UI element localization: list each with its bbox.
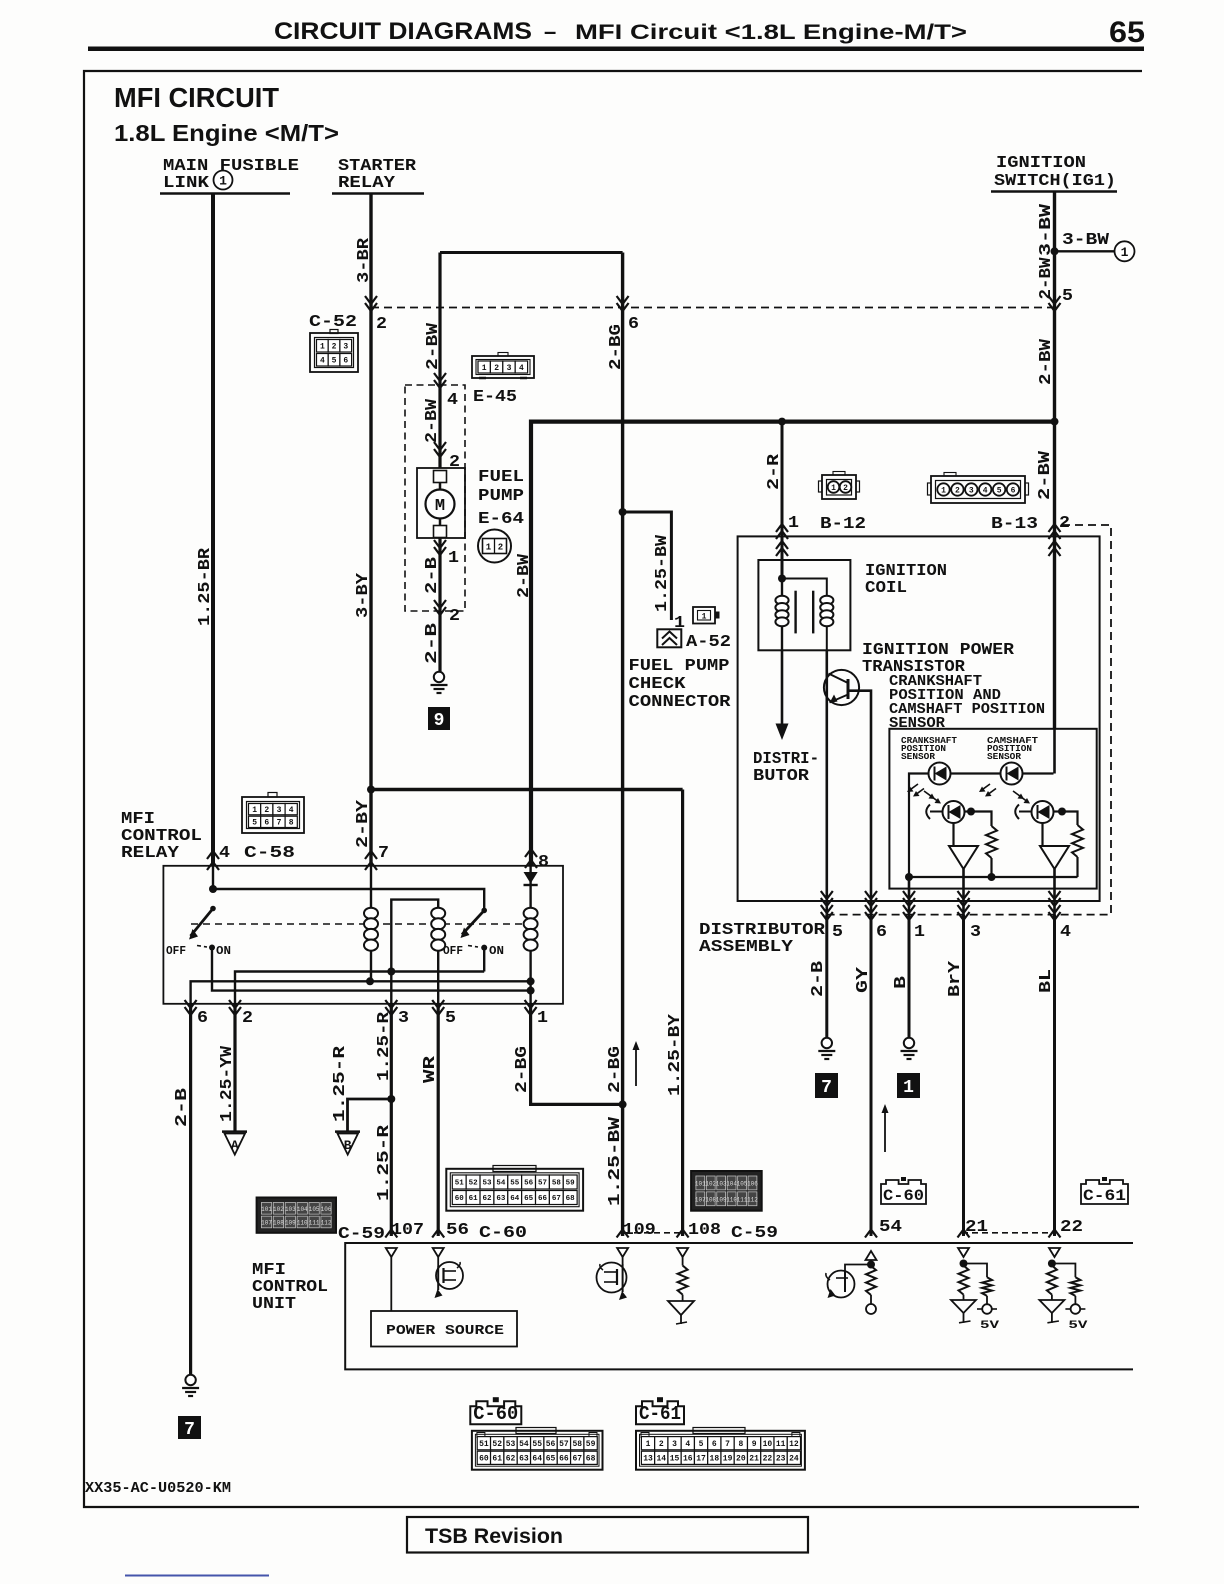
- svg-text:14: 14: [656, 1455, 666, 1464]
- svg-text:1.25-YW: 1.25-YW: [218, 1045, 237, 1122]
- svg-text:C-60: C-60: [479, 1224, 527, 1243]
- svg-text:17: 17: [696, 1455, 706, 1464]
- svg-text:2: 2: [955, 486, 960, 495]
- svg-text:3: 3: [343, 343, 348, 352]
- wire 2-BG / 1.25-BW vertical to MFI pin 109: [621, 253, 624, 1237]
- svg-text:CIRCUIT DIAGRAMS: CIRCUIT DIAGRAMS: [274, 18, 532, 45]
- chevron arrows relay pin 8 entry: [525, 849, 537, 857]
- svg-text:2-BW: 2-BW: [1037, 257, 1056, 300]
- wire pin6 coil return rail: [191, 981, 531, 1004]
- svg-text:ON: ON: [216, 944, 231, 958]
- svg-text:59: 59: [586, 1440, 596, 1449]
- svg-text:3: 3: [277, 806, 282, 815]
- connector C-58 body: [242, 797, 304, 833]
- junction node pin1 takeoff: [527, 987, 535, 995]
- svg-text:2: 2: [376, 315, 387, 334]
- svg-text:3-BR: 3-BR: [355, 237, 374, 283]
- LED D2 camshaft: [1001, 763, 1023, 785]
- svg-text:1: 1: [537, 1009, 548, 1028]
- svg-text:5: 5: [997, 486, 1002, 495]
- svg-text:2-BW: 2-BW: [423, 398, 442, 443]
- wire B-13 2-BW into sensor LED D2: [1053, 729, 1056, 774]
- svg-text:3: 3: [969, 486, 974, 495]
- wire sensor ground pin 1: [908, 877, 911, 915]
- chevron arrows B-13 pin 2 entry: [1049, 524, 1061, 539]
- svg-text:63: 63: [496, 1195, 506, 1203]
- svg-text:4: 4: [320, 357, 325, 366]
- open triangle MFI entry x1054.5: [1049, 1248, 1060, 1257]
- chevron arrow fuel pump pin 2: [434, 442, 446, 457]
- wire branch to triangle B: [348, 1099, 392, 1132]
- svg-text:104: 104: [297, 1206, 308, 1213]
- wire transistor base exit pin 6: [870, 901, 873, 915]
- svg-text:12: 12: [789, 1440, 799, 1449]
- svg-text:22: 22: [763, 1455, 773, 1464]
- chevron arrow fuel pump ground pin 2: [434, 600, 446, 615]
- ground ref box 1: [897, 1073, 920, 1098]
- ground fuel pump: [434, 672, 444, 682]
- direction arrow up GY: [884, 1112, 886, 1152]
- chevron arrow ignition wire at dashed line: [1049, 296, 1061, 311]
- chevron arrows relay bottom pin 3: [385, 1000, 397, 1015]
- wire GY to MFI pin 54: [870, 915, 873, 1236]
- svg-text:58: 58: [572, 1440, 582, 1449]
- diagram border frame: [84, 71, 1142, 1507]
- svg-text:8: 8: [289, 819, 294, 828]
- svg-text:C-59: C-59: [731, 1224, 778, 1243]
- connector C-60 bottom label: [470, 1401, 521, 1424]
- svg-text:B: B: [892, 976, 911, 989]
- open triangle MFI entry x682.6: [677, 1248, 688, 1257]
- resistor R1 sensor: [986, 826, 997, 858]
- wire relay pin 6 2-B to ground: [189, 1004, 192, 1375]
- chevron arrow MFI entry x622.6: [617, 1230, 629, 1238]
- svg-text:4: 4: [289, 806, 294, 815]
- svg-text:21: 21: [749, 1455, 759, 1464]
- svg-text:68: 68: [566, 1195, 576, 1203]
- svg-text:2-BW: 2-BW: [1037, 338, 1056, 385]
- svg-text:COIL: COIL: [865, 579, 907, 598]
- svg-text:101: 101: [261, 1206, 272, 1213]
- svg-text:E-64: E-64: [478, 510, 524, 529]
- svg-text:56: 56: [446, 1221, 469, 1240]
- junction node pin3 rail: [387, 968, 395, 976]
- svg-text:7: 7: [725, 1440, 730, 1449]
- phototransistor PT1: [943, 801, 965, 823]
- wire 2-R rail to ignition coil: [781, 422, 784, 579]
- junction node relay pin4: [209, 885, 217, 893]
- connector C-61 small icon: [1081, 1180, 1128, 1204]
- svg-text:67: 67: [572, 1455, 582, 1464]
- svg-text:2-B: 2-B: [809, 961, 828, 997]
- svg-text:106: 106: [321, 1206, 332, 1213]
- svg-text:2: 2: [1059, 514, 1070, 533]
- svg-text:3-BW: 3-BW: [1037, 203, 1056, 256]
- svg-text:56: 56: [524, 1180, 534, 1188]
- chevron arrows relay bottom pin 5: [432, 1000, 444, 1015]
- svg-text:2: 2: [494, 364, 499, 373]
- svg-text:2: 2: [264, 806, 269, 815]
- transistor and resistor at MFI pin 54: [867, 1261, 875, 1269]
- svg-text:1.8L Engine <M/T>: 1.8L Engine <M/T>: [114, 120, 339, 146]
- svg-text:2-BG: 2-BG: [607, 324, 626, 370]
- svg-text:57: 57: [559, 1440, 569, 1449]
- svg-text:9: 9: [752, 1440, 757, 1449]
- svg-text:4: 4: [519, 364, 524, 373]
- svg-text:2-BW: 2-BW: [1036, 450, 1055, 500]
- svg-text:MFI Circuit <1.8L Engine-M/T>: MFI Circuit <1.8L Engine-M/T>: [575, 21, 967, 44]
- svg-text:64: 64: [532, 1455, 542, 1464]
- wire S2 ON contact to pin 2 rail: [235, 948, 484, 1004]
- svg-text:68: 68: [586, 1455, 596, 1464]
- relay switch S2 arm: [462, 910, 484, 934]
- phototransistor PT2 light arrows: [1013, 791, 1022, 797]
- svg-text:5: 5: [699, 1440, 704, 1449]
- wire comparator U1 output pin 3: [962, 869, 965, 915]
- wire 54 stub: [870, 1260, 872, 1264]
- direction arrow up 1.25-BY: [635, 1049, 637, 1086]
- svg-text:112: 112: [747, 1196, 758, 1203]
- svg-text:5: 5: [1062, 287, 1073, 306]
- wire PT2 to resistor R2: [1062, 812, 1078, 826]
- terminal triangle B: [335, 1130, 360, 1133]
- svg-text:LINK: LINK: [163, 174, 210, 193]
- connector C-60 bottom table: [472, 1431, 603, 1470]
- svg-text:2: 2: [498, 543, 503, 553]
- chevron arrows relay pin 4 entry: [207, 851, 219, 859]
- svg-text:53: 53: [482, 1180, 492, 1188]
- connector A-52 side icon: [693, 607, 715, 624]
- relay dashed mechanical link: [191, 923, 529, 925]
- svg-text:6: 6: [343, 357, 348, 366]
- svg-text:1.25-R: 1.25-R: [331, 1045, 350, 1122]
- svg-text:2-BG: 2-BG: [606, 1046, 625, 1093]
- connector C-60 small icon: [881, 1180, 926, 1204]
- svg-text:6: 6: [876, 923, 887, 942]
- svg-text:111: 111: [309, 1219, 320, 1226]
- svg-text:4: 4: [685, 1440, 690, 1449]
- wire pin3 riser and bar: [391, 900, 438, 1004]
- LED D1 crankshaft: [929, 763, 951, 785]
- svg-text:19: 19: [723, 1455, 733, 1464]
- connector C-59 right body: [691, 1171, 762, 1211]
- ground distributor B: [904, 1038, 914, 1048]
- junction node 2-BG joins 1.25-BW: [619, 1100, 627, 1108]
- svg-text:59: 59: [566, 1180, 576, 1188]
- svg-text:52: 52: [469, 1180, 479, 1188]
- ignition coil T1: [758, 560, 850, 650]
- svg-text:8: 8: [738, 1440, 743, 1449]
- chevron arrow 2-BG wire pin 6: [617, 296, 629, 311]
- svg-text:5: 5: [832, 923, 843, 942]
- svg-text:2-BY: 2-BY: [354, 799, 373, 848]
- svg-text:15: 15: [670, 1455, 680, 1464]
- svg-text:55: 55: [510, 1180, 520, 1188]
- svg-text:OFF: OFF: [166, 944, 186, 958]
- wire 3-BR/3-BY/2-BY starter relay to MFI control relay pin 7: [369, 194, 372, 867]
- svg-text:CHECK: CHECK: [629, 675, 687, 694]
- phototransistor PT1 light arrows: [924, 791, 933, 797]
- svg-text:ON: ON: [489, 944, 504, 958]
- wire relay pin 5 WR: [437, 1004, 440, 1236]
- connector A-52 chevron box: [657, 629, 681, 647]
- svg-text:1: 1: [903, 1078, 914, 1098]
- svg-text:61: 61: [492, 1455, 502, 1464]
- svg-text:3-BW: 3-BW: [1062, 231, 1110, 250]
- wire relay pin 1 2-BG elbow: [531, 1004, 623, 1105]
- svg-text:6: 6: [197, 1009, 208, 1028]
- chevron arrows relay bottom pin 1: [525, 1000, 537, 1015]
- svg-text:24: 24: [789, 1455, 799, 1464]
- svg-text:BrY: BrY: [946, 960, 965, 997]
- comparator U1 triangle: [949, 846, 978, 869]
- dashed link 21-22: [962, 1232, 1053, 1234]
- connector C-61 bottom table: [636, 1431, 805, 1470]
- junction node rail to B-13 wire: [1051, 418, 1059, 426]
- junction node coil L1 return: [366, 977, 374, 985]
- svg-text:5: 5: [252, 819, 257, 828]
- sensor unit box: [889, 729, 1096, 889]
- connector E-64 body: [478, 530, 511, 563]
- chevron arrows relay bottom pin 6: [185, 1000, 197, 1015]
- wire S1 ON contact to pin 1 rail: [212, 948, 531, 991]
- svg-text:1.25-R: 1.25-R: [375, 1011, 394, 1081]
- svg-text:2-BW: 2-BW: [515, 553, 534, 598]
- open triangle MFI entry x438.2: [433, 1248, 444, 1257]
- svg-text:SENSOR: SENSOR: [987, 752, 1022, 762]
- junction node rail to ignition coil: [778, 418, 786, 426]
- svg-text:106: 106: [747, 1180, 758, 1187]
- svg-text:54: 54: [519, 1440, 529, 1449]
- svg-text:M: M: [435, 497, 445, 516]
- wire branch to fuel pump check connector: [623, 512, 672, 620]
- wire PT2 emitter to comparator U2: [1041, 823, 1043, 846]
- svg-text:103: 103: [285, 1206, 296, 1213]
- chevron arrow fuel pump pin 1: [434, 540, 446, 555]
- wire relay pin 8 branch: [529, 866, 531, 1004]
- LED D2 light arrows: [982, 784, 991, 790]
- wire coil primary to distributor: [781, 650, 784, 726]
- svg-text:51: 51: [479, 1440, 489, 1449]
- svg-text:1.25-BW: 1.25-BW: [606, 1116, 625, 1206]
- dashed connector boundary line: [371, 307, 1055, 309]
- svg-text:2-B: 2-B: [423, 557, 442, 594]
- svg-text:1: 1: [252, 806, 257, 815]
- svg-text:1.25-BR: 1.25-BR: [196, 547, 215, 626]
- svg-text:1: 1: [941, 486, 946, 495]
- svg-text:B: B: [344, 1138, 352, 1153]
- junction node fuel pump check branch: [619, 508, 627, 516]
- svg-text:4: 4: [1060, 923, 1071, 942]
- svg-text:C-60: C-60: [883, 1187, 924, 1205]
- svg-text:4: 4: [983, 486, 988, 495]
- junction node bottom rail left: [905, 873, 913, 881]
- svg-text:4: 4: [219, 844, 230, 863]
- svg-text:2: 2: [332, 343, 337, 352]
- svg-text:108: 108: [273, 1219, 284, 1226]
- wire B to ground: [908, 915, 911, 1038]
- svg-text:1: 1: [482, 364, 487, 373]
- connector C-60 big body: [446, 1169, 583, 1211]
- wire 2-BW fuel pump feed upper: [438, 253, 441, 469]
- relay coil L3: [524, 908, 538, 919]
- LED D1 light arrows: [910, 784, 919, 790]
- svg-text:57: 57: [538, 1180, 547, 1188]
- wire power rail to coil and B-13: [531, 422, 1055, 866]
- svg-text:62: 62: [482, 1195, 492, 1203]
- svg-text:C-58: C-58: [244, 844, 295, 863]
- svg-text:2: 2: [449, 453, 460, 472]
- chevron arrow MFI entry x682.6: [677, 1230, 689, 1238]
- connector C-59 left body: [257, 1198, 336, 1233]
- svg-text:66: 66: [538, 1195, 548, 1203]
- phototransistor PT2: [1032, 801, 1054, 823]
- wire 3-BW branch to circled 1: [1055, 250, 1115, 252]
- svg-text:5: 5: [445, 1009, 456, 1028]
- transistor Q56 in MFI unit: [437, 1257, 439, 1266]
- svg-text:7: 7: [277, 819, 282, 828]
- pullup network at MFI pin 22: [1048, 1260, 1056, 1268]
- wire BrY to MFI pin 21: [962, 915, 965, 1236]
- wire relay top rail pin4: [213, 866, 484, 911]
- svg-text:1: 1: [646, 1440, 651, 1449]
- svg-text:4: 4: [447, 391, 458, 410]
- wire transistor emitter exit pin 5: [825, 901, 828, 915]
- junction node ignition switch branch: [1051, 247, 1059, 255]
- relay switch S1 arm: [191, 909, 214, 937]
- chevron arrow E-45 pin 4: [434, 373, 446, 388]
- svg-text:B-13: B-13: [991, 515, 1038, 534]
- svg-text:58: 58: [552, 1180, 562, 1188]
- svg-text:53: 53: [506, 1440, 516, 1449]
- svg-text:52: 52: [492, 1440, 502, 1449]
- ground ref box 7 right: [815, 1073, 838, 1098]
- svg-text:62: 62: [506, 1455, 516, 1464]
- svg-text:61: 61: [469, 1195, 479, 1203]
- junction node PT2 collector: [1058, 808, 1066, 816]
- svg-text:1: 1: [788, 514, 799, 533]
- wire 2-B to ground: [825, 915, 828, 1038]
- terminal triangle A: [222, 1130, 247, 1133]
- svg-text:CONNECTOR: CONNECTOR: [629, 693, 732, 712]
- sensor bottom rail: [909, 876, 1078, 878]
- svg-text:C-60: C-60: [473, 1403, 518, 1425]
- chevron arrows relay bottom pin 2: [229, 1000, 241, 1015]
- svg-text:2-R: 2-R: [765, 453, 784, 490]
- svg-text:65: 65: [1109, 16, 1145, 49]
- svg-text:1: 1: [914, 923, 925, 942]
- svg-text:6: 6: [628, 315, 639, 334]
- circled terminal 1: [1115, 241, 1135, 261]
- open triangle MFI entry x963.5: [958, 1248, 969, 1257]
- chevron arrows B-12 pin 1 entry: [776, 524, 788, 539]
- svg-text:SWITCH(IG1): SWITCH(IG1): [994, 172, 1116, 191]
- wire top link 2-BW to 2-BG: [440, 251, 623, 254]
- wire PT1 emitter to comparator: [952, 823, 954, 846]
- svg-text:56: 56: [546, 1440, 556, 1449]
- wire 3-BW/2-BW ignition switch down: [1053, 192, 1056, 422]
- wire LED D1 to LED D2 rail: [951, 772, 1054, 774]
- svg-text:POWER SOURCE: POWER SOURCE: [386, 1323, 504, 1339]
- svg-text:XX35-AC-U0520-KM: XX35-AC-U0520-KM: [85, 1480, 231, 1497]
- chevron arrow starter wire pin 2: [365, 296, 377, 311]
- svg-text:1: 1: [448, 549, 459, 568]
- pullup network at MFI pin 21: [960, 1260, 968, 1268]
- wire relay pin 3 1.25-R: [390, 1004, 393, 1236]
- svg-text:3: 3: [507, 364, 512, 373]
- svg-text:E-45: E-45: [473, 388, 517, 407]
- svg-text:FUEL PUMP: FUEL PUMP: [629, 657, 730, 676]
- svg-text:107: 107: [261, 1219, 272, 1226]
- ground ref box 9: [428, 707, 450, 730]
- transistor Q109 in MFI unit: [622, 1257, 624, 1264]
- relay coil L2: [431, 908, 445, 919]
- svg-text:2-BG: 2-BG: [513, 1046, 532, 1093]
- svg-text:21: 21: [965, 1218, 988, 1237]
- ground relay pin 6: [185, 1375, 195, 1385]
- svg-text:BL: BL: [1037, 969, 1056, 993]
- svg-text:2: 2: [242, 1009, 253, 1028]
- dashed link 109-108: [624, 1232, 681, 1234]
- ignition power transistor Q1: [825, 650, 828, 901]
- svg-text:1: 1: [320, 343, 325, 352]
- TSB Revision box: [407, 1517, 808, 1553]
- svg-text:1: 1: [219, 174, 227, 189]
- svg-text:2-BW: 2-BW: [424, 322, 443, 370]
- wire relay pin 2 1.25-YW: [233, 1004, 236, 1132]
- junction node starter wire to 1.25-BY branch: [367, 786, 375, 794]
- svg-text:7: 7: [184, 1420, 195, 1440]
- svg-text:UNIT: UNIT: [252, 1295, 296, 1314]
- svg-text:110: 110: [297, 1219, 308, 1226]
- svg-text:2: 2: [659, 1440, 664, 1449]
- fuel pump motor M: [417, 468, 465, 538]
- connector B-13 body: [931, 476, 1025, 503]
- svg-text:1: 1: [702, 613, 707, 622]
- svg-text:6: 6: [264, 819, 269, 828]
- svg-text:B-12: B-12: [820, 515, 866, 534]
- svg-text:1.25-BW: 1.25-BW: [653, 534, 672, 612]
- chevron arrow MFI entry 54: [865, 1230, 877, 1238]
- relay coil L1: [370, 866, 372, 982]
- relay diode D1: [524, 872, 538, 884]
- header rule: [88, 47, 1144, 52]
- svg-text:A-52: A-52: [686, 633, 731, 652]
- connector E-45 body: [472, 356, 534, 378]
- wire 1.25-BR main fusible link to MFI control relay pin 4: [211, 194, 215, 867]
- fuel pump dashed boundary box: [405, 385, 465, 611]
- svg-text:PUMP: PUMP: [478, 487, 524, 506]
- svg-text:BUTOR: BUTOR: [753, 767, 810, 786]
- svg-text:2-B: 2-B: [173, 1088, 192, 1127]
- svg-text:11: 11: [776, 1440, 786, 1449]
- svg-text:1: 1: [831, 484, 836, 493]
- svg-text:TSB Revision: TSB Revision: [425, 1525, 563, 1548]
- svg-text:8: 8: [538, 853, 549, 872]
- svg-text:112: 112: [321, 1219, 332, 1226]
- svg-text:102: 102: [273, 1206, 284, 1213]
- svg-text:55: 55: [532, 1440, 542, 1449]
- svg-text:105: 105: [309, 1206, 320, 1213]
- svg-text:64: 64: [510, 1195, 520, 1203]
- svg-text:20: 20: [736, 1455, 746, 1464]
- svg-text:108: 108: [688, 1221, 721, 1240]
- svg-text:2: 2: [449, 607, 460, 626]
- MFI control unit box: [345, 1243, 1133, 1369]
- svg-text:3: 3: [398, 1009, 409, 1028]
- svg-text:MFI CIRCUIT: MFI CIRCUIT: [114, 82, 279, 113]
- connector B-12 body: [822, 475, 856, 499]
